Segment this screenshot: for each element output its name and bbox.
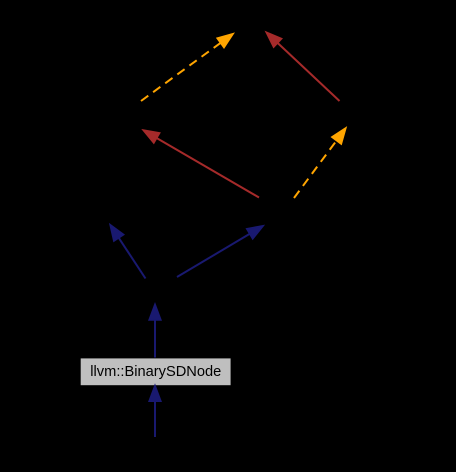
wire: blue inheritance edge, llvm::BinarySDNode to llvm::SDNode (line): [154, 320, 156, 358]
node llvm::BinarySDNode (highlighted box): [81, 358, 231, 385]
wire: blue inheritance edge, llvm::SDNode to node G (line): [119, 238, 146, 279]
node G arrowhead (midnightblue, pointing up-left): [110, 225, 124, 242]
node D arrowhead (midnightblue, pointing up-right): [247, 226, 264, 239]
wire: dark red usage edge, node C top to node A (line): [278, 43, 340, 101]
wire: orange dashed template-relation edge, node D top to node C (line): [294, 141, 337, 198]
llvm::BinarySDNode arrowhead (midnightblue, pointing up): [149, 385, 161, 401]
node A arrowhead (dark red, pointing up-left): [266, 32, 282, 47]
wire: blue inheritance edge, bottom derived node to llvm::BinarySDNode (line): [154, 401, 156, 437]
llvm::SDNode arrowhead (midnightblue, pointing up): [149, 304, 161, 320]
node C arrowhead (orange, pointing up-right): [332, 128, 346, 145]
node A arrowhead (orange, pointing up-right): [217, 34, 233, 48]
svg-text:llvm::BinarySDNode: llvm::BinarySDNode: [90, 363, 221, 380]
wire: dark red usage edge, node D top to node B (line): [157, 138, 259, 197]
wire: orange dashed template-relation edge, node B top to node A (line): [141, 43, 221, 101]
wire: blue inheritance edge, llvm::SDNode to node D (line): [177, 234, 250, 277]
node B arrowhead (dark red, pointing up-left): [143, 130, 160, 143]
